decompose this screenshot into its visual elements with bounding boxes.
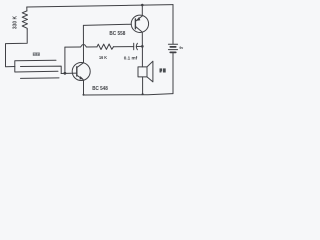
Q2 emitter arrowhead (points into base) (136, 17, 140, 21)
Q2 collector lead down (135, 26, 142, 46)
Q1 emitter lead down (77, 75, 84, 95)
wire battery top lead (172, 5, 174, 44)
wire hop over vertical (no connection) (81, 45, 87, 47)
wire Q1 collector to Q2 base (83, 24, 131, 25)
svg-text:BC 548: BC 548 (92, 86, 108, 92)
junction dot Q1 base node (64, 72, 67, 75)
wire comb B tap to Q1 base (61, 72, 76, 74)
background (0, 0, 187, 100)
capacitor C1 plate right curved (136, 43, 137, 49)
junction dot emitter at bottom rail (83, 94, 85, 96)
wire R1 top lead (26, 7, 28, 11)
wire collector node down to speaker (141, 46, 143, 67)
Q2 emitter lead up to rail (141, 5, 143, 16)
wire R2 row left segment (65, 46, 81, 48)
battery B1 long plate 2 (168, 49, 177, 51)
Q1 emitter arrowhead (80, 76, 84, 79)
junction dot top rail / Q2 emitter (141, 4, 144, 7)
capacitor C1 plate left (133, 43, 135, 49)
svg-text:9v: 9v (179, 46, 183, 50)
wire R2 to C1 (114, 46, 134, 48)
Q2 base bar (134, 19, 136, 29)
wire speaker to bottom rail (142, 77, 144, 94)
speaker cone (147, 61, 153, 82)
wire bottom rail (83, 94, 173, 95)
touch plate comb A (15, 60, 58, 72)
speaker LS1 box (138, 67, 147, 77)
svg-text:330 K: 330 K (12, 16, 18, 30)
Q1 base bar (76, 67, 78, 76)
wire R1 bottom to touch plate (6, 29, 28, 66)
resistor R1 330K zigzag (22, 11, 27, 30)
transistor Q1 BC548 circle (72, 63, 90, 81)
resistor R2 16K zigzag (97, 44, 114, 50)
label speaker (tiny glyph blobs) (160, 68, 166, 72)
wire base node up to R2 row (64, 47, 66, 73)
battery B1 long plate 1 (168, 43, 177, 45)
battery B1 short plate 2 (170, 51, 175, 53)
wire top rail (27, 5, 173, 7)
touch plate comb B finger 1 and bar (21, 66, 62, 73)
label probe (tiny glyph blobs) (33, 53, 40, 56)
svg-text:0.1 mf: 0.1 mf (124, 56, 138, 61)
battery B1 short plate 1 (170, 46, 175, 48)
wire battery bottom lead (172, 53, 174, 94)
junction dot speaker at bottom rail (142, 93, 144, 95)
Q2 emitter diagonal (135, 16, 142, 22)
svg-text:16 K: 16 K (99, 55, 108, 60)
Q1 collector lead up (77, 25, 84, 67)
wire C1 to collector node (137, 45, 143, 47)
junction dot collector-cap-speaker node (141, 45, 144, 48)
svg-text:BC 558: BC 558 (109, 31, 125, 37)
touch plate comb B finger 2 (21, 77, 60, 80)
wire R2 left lead (86, 46, 97, 48)
transistor Q2 BC558 circle (131, 15, 148, 32)
